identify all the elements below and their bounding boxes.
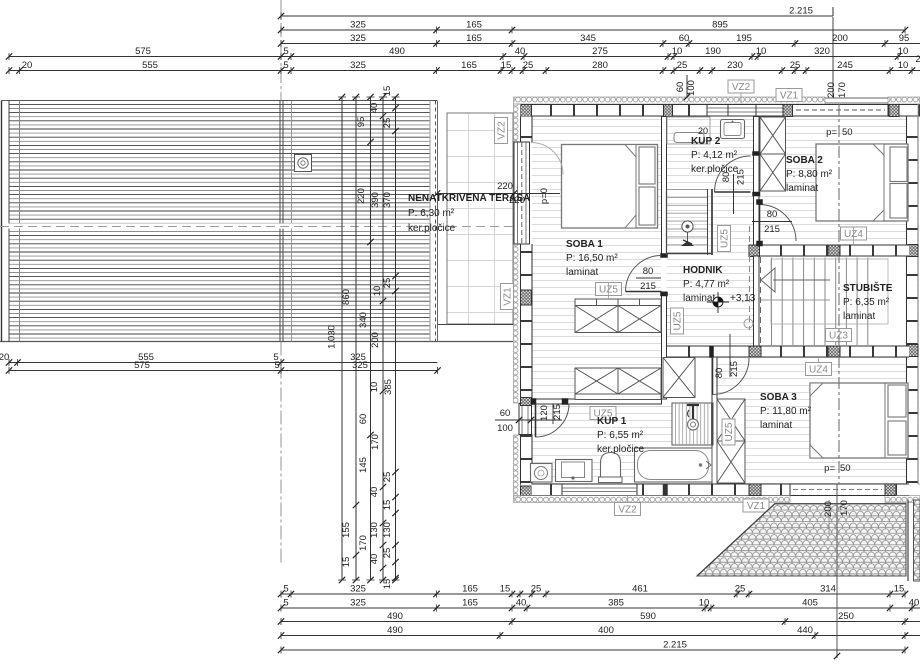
wall SOBA1|KUP1 horizontal thin: [531, 399, 662, 405]
stair STUBISTE treads: [761, 258, 888, 346]
solid block left wall at KUP1 wall: [521, 398, 532, 406]
door jamb blocks KUP2 door: [753, 152, 761, 197]
dimension row 555 bottom of terrace: [0, 352, 438, 366]
level mark +3,13: [707, 292, 756, 313]
svg-text:25: 25: [382, 548, 393, 559]
svg-text:405: 405: [802, 598, 818, 609]
deck joint lines: [280, 101, 292, 342]
svg-text:40: 40: [369, 554, 380, 565]
closet SOBA3 X: [717, 399, 745, 483]
svg-text:25: 25: [531, 584, 542, 595]
svg-text:VZ1: VZ1: [747, 501, 766, 512]
svg-text:575: 575: [134, 360, 150, 371]
svg-text:ker.pločice: ker.pločice: [408, 223, 456, 234]
svg-text:190: 190: [705, 46, 721, 57]
svg-text:100: 100: [686, 80, 697, 96]
solid block top wall at partition: [664, 105, 673, 117]
svg-text:155: 155: [341, 522, 352, 538]
marker VZ2 left wall: [495, 118, 508, 144]
svg-text:+3,13: +3,13: [730, 293, 756, 304]
stair edge dashed: [760, 257, 762, 345]
wall HODNIK|STUBISTE vertical: [754, 256, 760, 357]
svg-text:VZ1: VZ1: [503, 287, 514, 306]
window VZ1 bottom wall: [790, 484, 885, 496]
svg-text:60: 60: [679, 33, 690, 44]
svg-text:15: 15: [382, 86, 393, 97]
svg-text:VZ2: VZ2: [618, 505, 637, 516]
svg-text:461: 461: [632, 584, 648, 595]
bed SOBA 3 pillows: [810, 383, 906, 458]
svg-text:15: 15: [500, 584, 511, 595]
svg-text:laminat: laminat: [566, 267, 598, 278]
roof hatch right sliver: [914, 500, 920, 581]
svg-text:165: 165: [461, 60, 477, 71]
left wall masonry seg2: [521, 244, 533, 404]
dimension row 325/165/895: [278, 20, 908, 34]
room label STUBISTE: [843, 281, 893, 322]
deck right edge line: [437, 101, 439, 342]
svg-text:490: 490: [387, 625, 403, 636]
svg-text:10: 10: [756, 46, 767, 57]
svg-text:15: 15: [382, 500, 393, 511]
svg-text:370: 370: [382, 192, 393, 208]
floor STUBISTE: [765, 256, 909, 345]
svg-text:laminat: laminat: [786, 183, 818, 194]
svg-text:15: 15: [341, 557, 352, 568]
svg-text:170: 170: [370, 434, 381, 450]
svg-text:20: 20: [698, 126, 708, 136]
closet SOBA1 upper X: [575, 306, 661, 333]
door SOBA 3 with swing arc: [710, 346, 750, 395]
svg-text:575: 575: [135, 46, 151, 57]
svg-text:5: 5: [274, 360, 279, 371]
svg-text:40: 40: [516, 598, 527, 609]
terrace deck border: [0, 101, 513, 342]
svg-text:230: 230: [727, 60, 743, 71]
marker VZ1 left wall: [501, 284, 514, 310]
svg-text:400: 400: [598, 625, 614, 636]
svg-text:50: 50: [842, 127, 853, 138]
svg-text:20: 20: [22, 60, 33, 71]
svg-text:200: 200: [823, 501, 834, 517]
svg-text:50: 50: [840, 463, 851, 474]
svg-text:1.030: 1.030: [327, 325, 338, 349]
svg-text:200: 200: [370, 332, 381, 348]
dim 60/100 top KUP2: [675, 75, 697, 100]
svg-text:5: 5: [283, 598, 288, 609]
svg-text:P: 4,12 m²: P: 4,12 m²: [691, 150, 738, 161]
svg-text:p=: p=: [826, 127, 837, 138]
svg-text:25: 25: [735, 584, 746, 595]
vertical section line lower segment: [834, 484, 840, 659]
slope label p=50 soba2: [826, 127, 852, 138]
svg-text:10: 10: [672, 46, 683, 57]
dimension row bottom 2.215: [278, 640, 908, 654]
svg-text:165: 165: [466, 33, 482, 44]
bed SOBA 1: [562, 145, 658, 229]
svg-text:325: 325: [350, 598, 366, 609]
door SOBA 1 with swing arc: [626, 256, 662, 292]
svg-text:5: 5: [283, 584, 288, 595]
svg-text:VZ2: VZ2: [732, 82, 751, 93]
svg-text:UZ5: UZ5: [720, 229, 731, 248]
solid block at stairs bottom wall 2: [828, 346, 840, 357]
left wall masonry seg1: [521, 117, 533, 143]
svg-text:340: 340: [358, 312, 369, 328]
svg-text:165: 165: [462, 584, 478, 595]
solid block top-left corner: [521, 105, 532, 117]
dimension row 575 bottom of terrace: [6, 360, 441, 374]
solid block right wall 1: [908, 245, 918, 257]
marker VZ1 top wall: [776, 89, 802, 102]
svg-text:P: 4,77 m²: P: 4,77 m²: [683, 279, 730, 290]
left wall insulation circles 2: [514, 244, 521, 403]
svg-text:390: 390: [370, 192, 381, 208]
floor SOBA 3: [717, 357, 909, 484]
vertical chain labels: [327, 86, 395, 590]
svg-text:130: 130: [382, 522, 393, 538]
dim 200/170 top right: [826, 82, 848, 98]
dim 80/215 SOBA1 door: [636, 266, 661, 292]
left wall insulation circles 1: [514, 104, 521, 142]
svg-text:2.215: 2.215: [663, 640, 687, 651]
svg-text:250: 250: [838, 611, 854, 622]
svg-text:p=0: p=0: [539, 188, 550, 204]
svg-text:15: 15: [382, 579, 393, 590]
dim 200/170 bottom right: [823, 500, 850, 535]
room label SOBA 3: [760, 392, 812, 431]
closet SOBA2 X: [760, 117, 786, 191]
solid block bottom wall right: [885, 484, 896, 496]
svg-text:VZ2: VZ2: [497, 121, 508, 140]
svg-text:325: 325: [350, 33, 366, 44]
svg-text:220: 220: [497, 181, 513, 192]
svg-text:P: 6,35 m²: P: 6,35 m²: [843, 297, 890, 308]
svg-text:25: 25: [790, 60, 801, 71]
window VZ2 left wall (terrace): [514, 142, 530, 244]
svg-text:195: 195: [736, 33, 752, 44]
svg-text:215: 215: [736, 169, 747, 185]
svg-text:P: 11,80 m²: P: 11,80 m²: [760, 406, 812, 417]
svg-text:170: 170: [358, 535, 369, 551]
washing machine KUP1: [531, 464, 553, 483]
svg-text:200: 200: [826, 82, 837, 98]
svg-text:p=: p=: [824, 463, 835, 474]
svg-text:15: 15: [894, 584, 905, 595]
marker UZ5 kup1: [590, 407, 616, 420]
slope label p=50 soba3: [824, 463, 850, 474]
dim 220 terrace width: [434, 181, 560, 206]
svg-text:HODNIK: HODNIK: [683, 265, 723, 276]
solid block top wall right of window: [783, 105, 793, 117]
door KUP 1 with swing arc: [536, 404, 570, 438]
right wall masonry: [907, 117, 919, 485]
svg-text:15: 15: [501, 60, 512, 71]
svg-text:80: 80: [721, 172, 732, 183]
right wall insulation circles: [918, 104, 920, 484]
horizontal centreline: [0, 226, 920, 228]
svg-text:325: 325: [352, 360, 368, 371]
top wall masonry left: [532, 105, 708, 117]
room label NENATKRIVENA TERASA: [408, 193, 530, 234]
svg-text:40: 40: [369, 487, 380, 498]
dim 80/215 SOBA2 door: [752, 209, 792, 235]
svg-text:60: 60: [500, 408, 511, 419]
svg-text:80: 80: [767, 209, 778, 220]
svg-text:590: 590: [640, 611, 656, 622]
svg-text:SOBA 2: SOBA 2: [786, 155, 823, 166]
shelf KUP2: [674, 133, 704, 143]
door opening SOBA3 (gap): [713, 347, 750, 357]
svg-text:KUP 2: KUP 2: [691, 136, 721, 147]
closet SOBA1 lower X: [575, 368, 661, 394]
closet SOBA1 upper rail: [575, 299, 661, 306]
svg-text:385: 385: [383, 379, 394, 395]
svg-text:2.215: 2.215: [789, 6, 813, 17]
wall KUP1|SOBA3 vertical: [712, 357, 717, 484]
bottom wall masonry right: [885, 484, 909, 496]
dim 60/100 KUP1 left: [495, 408, 562, 434]
door terrace SOBA1 left wall swing: [531, 143, 563, 175]
dimension row 575/5/490/40/275/10/190/10/320/10: [6, 46, 920, 60]
svg-text:P: 8,80 m²: P: 8,80 m²: [786, 169, 833, 180]
door KUP 2 with swing arc: [715, 156, 751, 192]
wall SOBA1|HODNIK lower segment: [662, 292, 667, 399]
svg-text:220: 220: [509, 195, 525, 206]
solid block bottom-left corner: [521, 486, 532, 496]
roof hatch below house: [697, 504, 906, 577]
svg-text:325: 325: [350, 20, 366, 31]
svg-text:25: 25: [523, 60, 534, 71]
svg-text:215: 215: [764, 224, 780, 235]
terrace post with anchor: [295, 155, 312, 172]
svg-text:10: 10: [898, 46, 909, 57]
svg-text:170: 170: [839, 500, 850, 516]
svg-text:215: 215: [640, 281, 656, 292]
left wall masonry seg3: [521, 435, 533, 485]
svg-text:275: 275: [592, 46, 608, 57]
svg-text:440: 440: [797, 625, 813, 636]
floor SOBA 1: [532, 117, 662, 400]
dimension row 2.215 top: [278, 6, 833, 20]
door jamb blocks SOBA1 door: [661, 254, 668, 297]
floor opening dashed edge hodnik: [749, 226, 751, 330]
solid block SOBA2 bottom-left: [749, 245, 760, 257]
closet SOBA1 lower rail: [575, 394, 661, 400]
svg-text:10: 10: [898, 60, 909, 71]
svg-text:25: 25: [382, 472, 393, 483]
dimension row 20/555/5/325/165/15/25/280/25/230/25/245/10: [6, 60, 920, 74]
dimension row 325/165/345/60/195/200/95: [278, 33, 920, 47]
svg-text:130: 130: [369, 522, 380, 538]
marker UZ5 hodnik: [671, 308, 684, 334]
solid block at stairs bottom wall 1: [749, 346, 761, 357]
vertical dimension chain lines: [338, 94, 400, 583]
door/window KUP1 left wall: [519, 404, 532, 435]
svg-text:25: 25: [677, 60, 688, 71]
svg-text:10: 10: [699, 598, 710, 609]
svg-text:VZ1: VZ1: [780, 91, 799, 102]
dim 80/215 KUP2 door: [721, 169, 747, 214]
balcony window top wall: [793, 105, 889, 117]
dimension row bottom 5/325/165/40/385/10/405/40: [278, 598, 920, 612]
top wall insulation circles right part: [888, 97, 920, 104]
terrace deck planks: [9, 104, 430, 338]
svg-text:2: 2: [915, 54, 920, 65]
svg-text:280: 280: [592, 60, 608, 71]
bathtub KUP1: [635, 448, 713, 482]
svg-text:385: 385: [608, 598, 624, 609]
svg-text:40: 40: [369, 103, 380, 114]
svg-text:60: 60: [358, 414, 369, 425]
svg-text:laminat: laminat: [843, 311, 875, 322]
wall SOBA2 bottom masonry: [759, 245, 909, 256]
newel circle hodnik: [744, 319, 753, 328]
svg-text:10: 10: [369, 382, 380, 393]
marker VZ2 bottom wall: [615, 503, 641, 516]
svg-text:345: 345: [580, 33, 596, 44]
svg-text:SOBA 1: SOBA 1: [566, 239, 603, 250]
svg-text:STUBIŠTE: STUBIŠTE: [843, 281, 893, 294]
wall SOBA1|KUP2 upper segment: [662, 117, 667, 258]
shower KUP2 corner: [667, 117, 710, 144]
room label KUP 1: [597, 416, 645, 455]
solid block left wall mid: [521, 290, 532, 305]
svg-text:215: 215: [552, 404, 563, 420]
window VZ2+VZ1 top wall: [707, 105, 783, 117]
top wall thin band over balcony window: [825, 97, 888, 99]
dimension row bottom 5/325/165/15/25/461/25/314/15: [278, 584, 908, 598]
wall KUP2|SOBA2 vertical: [754, 117, 760, 257]
tiled terrace (ker.plocice): [437, 113, 514, 325]
svg-text:314: 314: [820, 584, 836, 595]
top wall insulation circles left part: [514, 97, 826, 104]
svg-text:145: 145: [358, 457, 369, 473]
washbasin KUP1: [556, 460, 593, 482]
svg-text:laminat: laminat: [760, 420, 792, 431]
svg-text:215: 215: [729, 361, 740, 377]
svg-text:SOBA 3: SOBA 3: [760, 392, 797, 403]
svg-text:40: 40: [515, 46, 526, 57]
marker UZ3 stubiste: [826, 329, 852, 342]
svg-text:25: 25: [382, 278, 393, 289]
door SOBA 2 with swing arc: [757, 200, 797, 247]
dimension row bottom 490/400/440: [278, 625, 920, 639]
dimension row bottom 490/590/250: [278, 611, 920, 625]
marker UZ4 soba3: [806, 363, 832, 376]
solid block at stairs top wall: [828, 245, 840, 256]
bed SOBA 3: [810, 383, 908, 458]
svg-text:P: 6,55 m²: P: 6,55 m²: [597, 430, 644, 441]
vertical section line through house (dash-dot): [838, 104, 840, 484]
svg-text:860: 860: [341, 289, 352, 305]
svg-text:KUP 1: KUP 1: [597, 416, 627, 427]
solid block top wall right: [889, 105, 899, 117]
svg-text:P: 16,50 m²: P: 16,50 m²: [566, 253, 618, 264]
washbasin cabinet KUP2: [721, 120, 745, 139]
svg-text:5: 5: [283, 60, 288, 71]
top wall masonry right: [793, 105, 920, 117]
svg-text:25: 25: [382, 118, 393, 129]
stair STUBISTE walk line and arrow: [761, 268, 830, 292]
svg-text:100: 100: [497, 423, 513, 434]
closet HODNIK corner X: [663, 358, 695, 398]
attic ladder KUP1: [672, 403, 713, 445]
svg-text:245: 245: [837, 60, 853, 71]
roof edge right: [907, 500, 909, 582]
bottom wall insulation circles left: [514, 496, 791, 503]
svg-text:220: 220: [356, 188, 367, 204]
svg-text:555: 555: [142, 60, 158, 71]
svg-text:80: 80: [643, 266, 654, 277]
room label KUP 2: [691, 126, 739, 175]
svg-text:5: 5: [283, 46, 288, 57]
bottom wall insulation circles right: [885, 496, 920, 503]
dim 120/215 KUP1 door: [539, 404, 563, 424]
svg-text:490: 490: [389, 46, 405, 57]
svg-text:ker.pločice: ker.pločice: [597, 444, 645, 455]
room label HODNIK: [683, 265, 730, 304]
svg-text:UZ5: UZ5: [673, 311, 684, 330]
marker VZ2 top wall: [728, 80, 754, 93]
svg-text:40: 40: [909, 598, 920, 609]
svg-text:95: 95: [899, 33, 910, 44]
room label SOBA 2: [786, 155, 833, 194]
window VZ2 bottom wall: [562, 484, 637, 496]
bed SOBA 2: [816, 144, 908, 221]
svg-text:P: 6,30 m²: P: 6,30 m²: [408, 208, 455, 219]
solid block right wall 2: [908, 345, 918, 357]
wall bottom of hodnik/stairs masonry: [667, 346, 910, 357]
marker VZ1 bottom wall: [743, 499, 769, 512]
vertical section line upper segment: [832, 17, 834, 97]
floor KUP 1: [532, 404, 712, 484]
svg-text:325: 325: [350, 60, 366, 71]
white band for centreline across deck: [3, 223, 430, 228]
toilet KUP1: [599, 453, 623, 483]
svg-text:200: 200: [832, 33, 848, 44]
svg-text:170: 170: [837, 82, 848, 98]
svg-text:20: 20: [0, 352, 9, 363]
svg-text:UZ4: UZ4: [809, 365, 828, 376]
svg-text:320: 320: [814, 46, 830, 57]
svg-text:895: 895: [712, 20, 728, 31]
vertical centreline terrace: [280, 0, 282, 565]
svg-text:165: 165: [466, 20, 482, 31]
svg-text:490: 490: [387, 611, 403, 622]
svg-text:165: 165: [462, 598, 478, 609]
svg-text:60: 60: [675, 82, 686, 93]
svg-text:325: 325: [350, 584, 366, 595]
marker UZ5 kup2 wall: [718, 226, 731, 252]
marker UZ5 soba3 closet: [722, 419, 735, 445]
thick joint bottom wall at partition: [663, 484, 668, 496]
bottom wall masonry left: [532, 484, 791, 496]
svg-text:80: 80: [714, 368, 725, 379]
dim 80/215 SOBA3 door: [714, 334, 740, 378]
marker UZ5 soba1: [596, 283, 622, 296]
small stair KUP2->HODNIK: [667, 189, 713, 255]
floor SOBA 2: [759, 117, 909, 246]
marker UZ4 soba2: [841, 227, 867, 240]
left wall insulation circles 3: [514, 435, 521, 497]
svg-text:120: 120: [539, 405, 550, 421]
solid block bottom wall centre: [749, 484, 761, 496]
room label SOBA 1: [566, 239, 618, 278]
floor KUP 2 / stairs / HODNIK strip: [667, 117, 754, 347]
svg-text:UZ5: UZ5: [724, 422, 735, 441]
svg-text:95: 95: [356, 117, 367, 128]
